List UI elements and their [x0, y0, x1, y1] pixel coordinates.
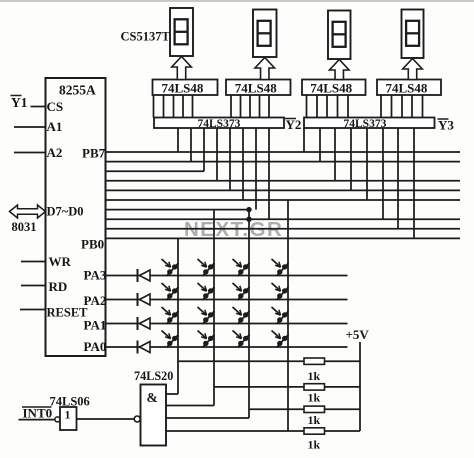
wire U3 74LS373 input 4: [350, 128, 352, 190]
wire A1 pin: [14, 126, 46, 128]
wire U3 74LS373 input 6: [382, 128, 384, 219]
label 8255A: [59, 83, 96, 98]
wire PA1 row: [106, 323, 348, 325]
bubble U8 output: [134, 416, 140, 422]
svg-text:8031: 8031: [12, 220, 37, 234]
svg-text:PA0: PA0: [84, 339, 107, 354]
svg-text:74LS48: 74LS48: [386, 81, 428, 96]
svg-text:1k: 1k: [308, 438, 321, 452]
svg-text:74LS373: 74LS373: [344, 118, 387, 130]
key switch S16 (row PA0, col 4): [272, 331, 289, 348]
pin label A1: [47, 119, 63, 134]
wire U8 74LS20 input 1: [166, 393, 178, 395]
svg-text:8255A: 8255A: [59, 83, 96, 98]
key switch S6 (row PA2, col 2): [198, 283, 215, 300]
display DS2 seven-segment: [253, 10, 277, 58]
svg-text:PB0: PB0: [81, 237, 104, 252]
pin label PA3: [84, 268, 107, 283]
diode D4 on PA0 row: [138, 341, 151, 354]
resistor R2: [304, 384, 325, 390]
wire column 4 to R4: [288, 430, 304, 432]
wire R2 to +5V rail: [325, 386, 361, 388]
wires U6 74LS48 outputs to latch: [307, 95, 349, 118]
net label Y1 (active low): [11, 95, 28, 110]
wire U3 74LS373 input 5: [366, 128, 368, 200]
svg-text:PA2: PA2: [84, 293, 107, 308]
junction dots column 3: [246, 207, 251, 222]
label U4 74LS48: [162, 81, 204, 96]
wire R3 to +5V rail: [325, 408, 361, 410]
wire PB bus line 7: [106, 209, 250, 211]
IC U7 74LS48 body: [377, 80, 441, 96]
IC U4 74LS48 body: [153, 80, 218, 96]
label R2 1k: [308, 391, 321, 405]
wire U2 74LS373 input 5: [229, 128, 231, 190]
label U3 74LS373: [344, 118, 387, 130]
wire U2 74LS373 input 7: [255, 128, 257, 210]
arrow U6 to display DS3: [329, 60, 349, 80]
pin label CS: [47, 99, 64, 114]
key switch S13 (row PA0, col 1): [162, 331, 179, 348]
pin label PB0: [81, 237, 104, 252]
display DS4 seven-segment: [402, 10, 424, 59]
IC U2 74LS373 body: [154, 118, 284, 129]
arrow U7 to display DS4: [403, 59, 423, 80]
wire key column 1: [177, 238, 179, 394]
wire INT0 lead: [19, 419, 55, 421]
wire column 2 to R2: [214, 386, 304, 388]
wire column 3 to R3: [249, 408, 304, 410]
pin label PA1: [84, 318, 107, 333]
scan edge line: [0, 0, 474, 2]
wire key column 4: [287, 200, 289, 431]
display DS1 seven-segment: [170, 8, 193, 56]
key switch S14 (row PA0, col 2): [198, 331, 215, 348]
svg-text:1k: 1k: [308, 413, 321, 427]
label R1 1k: [308, 369, 321, 383]
svg-text:PA3: PA3: [84, 268, 107, 283]
svg-text:A2: A2: [47, 145, 63, 160]
wire WR pin: [21, 261, 46, 263]
wire PA0 row: [106, 346, 348, 348]
wire key column 3: [248, 210, 250, 418]
wire U2 74LS373 input 8: [268, 128, 270, 219]
IC U1 8255A body: [46, 78, 106, 356]
label U9 74LS06: [50, 395, 90, 409]
display DS3 seven-segment: [328, 11, 351, 60]
wire U2 74LS373 input 4: [216, 128, 218, 181]
key switch S1 (row PA3, col 1): [162, 259, 179, 276]
wire PB bus line 4: [106, 180, 461, 182]
wire PB bus line 3: [106, 170, 205, 172]
label U8 74LS20: [134, 369, 173, 383]
svg-text:1: 1: [65, 408, 71, 422]
svg-text:74LS48: 74LS48: [162, 81, 204, 96]
wire +5V rail: [359, 342, 361, 431]
key switch S15 (row PA0, col 3): [233, 331, 250, 348]
wire U3 74LS373 input 2: [319, 128, 321, 162]
wire PB bus line 1: [106, 151, 461, 153]
IC U6 74LS48 body: [302, 80, 366, 96]
diode D2 on PA2 row: [138, 293, 151, 306]
net label INT0 (active low): [22, 406, 52, 421]
label R4 1k: [308, 438, 321, 452]
key switch S5 (row PA2, col 1): [162, 283, 179, 300]
label U7 74LS48: [386, 81, 428, 96]
net label Y2: [285, 117, 301, 132]
wires U5 74LS48 outputs to latch: [231, 95, 269, 118]
pin label RESET: [47, 306, 89, 320]
wires U7 74LS48 outputs to latch: [381, 95, 423, 118]
svg-text:PB7: PB7: [82, 146, 106, 161]
resistor R4: [304, 428, 325, 434]
svg-text:74LS373: 74LS373: [198, 118, 241, 130]
svg-text:74LS06: 74LS06: [50, 395, 90, 409]
wire PB bus line 9: [106, 228, 461, 230]
diode D1 on PA3 row: [138, 269, 151, 282]
key switch S9 (row PA1, col 1): [162, 307, 179, 324]
svg-text:1k: 1k: [308, 369, 321, 383]
label 1 inside U9: [65, 408, 71, 422]
svg-text:+5V: +5V: [346, 327, 370, 342]
arrow U5 to display DS2: [255, 58, 275, 80]
svg-text:PA1: PA1: [84, 318, 107, 333]
key switch S11 (row PA1, col 3): [233, 307, 250, 324]
wire PA3 row: [106, 275, 348, 277]
wire U2 74LS373 input 3: [203, 128, 205, 171]
svg-text:&: &: [147, 390, 158, 405]
label U5 74LS48: [235, 81, 277, 96]
svg-text:A1: A1: [47, 119, 63, 134]
svg-text:74LS48: 74LS48: [310, 81, 352, 96]
IC U5 74LS48 body: [226, 80, 291, 96]
data bus arrow D7~D0 to 8031: [10, 205, 46, 218]
wire U2 74LS373 input 2: [190, 128, 192, 162]
key switch S10 (row PA1, col 2): [198, 307, 215, 324]
pin label PA0: [84, 339, 107, 354]
key switch S4 (row PA3, col 4): [272, 259, 289, 276]
svg-text:WR: WR: [49, 254, 72, 269]
bubble U9 output: [55, 417, 60, 422]
svg-text:74LS48: 74LS48: [235, 81, 277, 96]
label U2 74LS373: [198, 118, 241, 130]
pin label RD: [49, 279, 68, 294]
wires U4 74LS48 outputs to latch: [154, 95, 193, 118]
wire PB bus line 8: [106, 218, 461, 220]
label & inside U8: [147, 390, 158, 405]
label CS5137T: [121, 30, 171, 44]
wire U3 74LS373 input 1: [303, 128, 305, 152]
wire A2 pin: [14, 152, 46, 154]
key switch S8 (row PA2, col 4): [272, 283, 289, 300]
power +5V label: [346, 327, 370, 342]
wire column 1 to R1: [178, 360, 304, 362]
svg-text:Y1: Y1: [11, 95, 28, 110]
wire PB bus line 6: [106, 199, 461, 201]
IC U3 74LS373 body: [304, 118, 435, 129]
label U6 74LS48: [310, 81, 352, 96]
key switch S12 (row PA1, col 4): [272, 307, 289, 324]
net label Y3: [438, 118, 455, 133]
wire U8 output to U9: [77, 418, 135, 420]
pin label A2: [47, 145, 63, 160]
wire key column 2: [213, 210, 215, 406]
IC U8 74LS20 body: [141, 385, 167, 446]
wire U8 74LS20 input 4: [166, 430, 288, 432]
key switch S3 (row PA3, col 3): [233, 259, 250, 276]
resistor R3: [304, 406, 325, 412]
decorative watermark: [184, 218, 283, 241]
key switch S2 (row PA3, col 2): [198, 259, 215, 276]
wire U3 74LS373 input 8: [413, 128, 415, 238]
svg-text:74LS20: 74LS20: [134, 369, 173, 383]
pin label D7~D0: [47, 205, 84, 219]
wire PB bus line 5: [106, 189, 461, 191]
resistor R1: [304, 358, 325, 364]
wire RD pin: [21, 285, 46, 287]
label 8031: [12, 220, 37, 234]
diode D3 on PA1 row: [138, 317, 151, 330]
arrow U4 to display DS1: [172, 57, 192, 80]
wire PA2 row: [106, 299, 348, 301]
label R3 1k: [308, 413, 321, 427]
svg-text:CS5137T: CS5137T: [121, 30, 171, 44]
pin label PA2: [84, 293, 107, 308]
svg-text:1k: 1k: [308, 391, 321, 405]
wire PB bus line 2: [106, 161, 461, 163]
pin label PB7: [82, 146, 106, 161]
svg-text:RESET: RESET: [47, 306, 89, 320]
wire R4 to +5V rail: [325, 430, 361, 432]
wire U2 74LS373 input 6: [242, 128, 244, 200]
wire RESET pin: [20, 309, 46, 311]
key switch S7 (row PA2, col 3): [233, 283, 250, 300]
svg-text:RD: RD: [49, 279, 68, 294]
wire U2 74LS373 input 1: [177, 128, 179, 152]
IC U9 74LS06 body: [60, 407, 77, 430]
svg-text:D7~D0: D7~D0: [47, 205, 84, 219]
wire U3 74LS373 input 3: [334, 128, 336, 181]
wire U3 74LS373 input 7: [397, 128, 399, 229]
wire R1 to +5V rail: [325, 360, 361, 362]
pin label WR: [49, 254, 72, 269]
wire U8 74LS20 input 3: [166, 417, 249, 419]
wire PB bus line 10: [106, 237, 461, 239]
wire CS pin: [31, 106, 46, 108]
svg-text:CS: CS: [47, 99, 64, 114]
wire U8 74LS20 input 2: [166, 405, 214, 407]
